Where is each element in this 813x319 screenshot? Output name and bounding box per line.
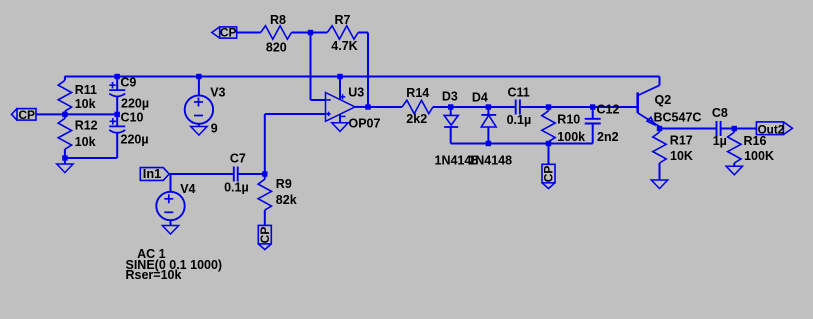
label Out2 [758,123,785,136]
label U3 [348,85,364,99]
flag port Out2 [756,122,792,135]
R17 value 10K [670,149,693,163]
svg-text:CP: CP [258,227,272,244]
label R11 [75,83,97,97]
wire [548,144,550,165]
svg-text:CP: CP [220,26,237,40]
svg-text:Rser=10k: Rser=10k [126,268,182,282]
C9 value 220µ [121,97,149,111]
label V4 [180,182,195,196]
label R10 [557,113,580,127]
resistor R7 [327,26,358,39]
ground [162,226,178,235]
label CP (R9 flag) [258,227,272,244]
svg-text:100K: 100K [744,149,774,163]
svg-text:D4: D4 [472,91,488,105]
svg-text:R11: R11 [75,83,97,97]
R16 value 100K [744,149,774,163]
ground [726,166,742,175]
node D4 top junction [486,104,491,109]
ground [332,123,348,132]
wire [358,32,368,34]
ground [191,127,207,136]
svg-text:R10: R10 [557,113,580,127]
node R8-R7 junction [308,30,313,35]
wire [264,114,266,174]
flag port CP (top) [212,27,237,38]
ground [651,180,667,189]
resistor R11 [58,77,71,115]
svg-text:220µ: 220µ [121,97,149,111]
node R10 top junction [546,104,551,109]
capacitor C12 [585,107,601,144]
svg-text:V3: V3 [210,86,225,100]
svg-text:10k: 10k [75,135,96,149]
resistor R8 [261,26,292,39]
wire [310,33,312,101]
svg-text:1N4148: 1N4148 [468,154,512,168]
wire [520,106,638,108]
D3 part 1N4148 [435,154,479,168]
label CP (top flag) [220,26,237,40]
transistor Q2 [638,77,660,129]
label CP (R10 flag) [542,166,556,183]
svg-text:BC547C: BC547C [654,111,702,125]
svg-text:R8: R8 [270,13,286,27]
svg-text:Out2: Out2 [758,123,785,136]
node C8-R16 junction [732,126,737,131]
flag port In1 [140,168,169,181]
label R17 [670,134,693,148]
wire [355,106,402,108]
label In1 [143,166,162,181]
label R14 [406,86,429,100]
resistor R16 [728,129,741,167]
svg-text:9: 9 [211,122,218,136]
svg-text:In1: In1 [143,166,162,181]
resistor R10 [542,107,555,144]
svg-text:D3: D3 [442,90,458,104]
R7 value 4.7K [331,39,357,53]
capacitor C10 [109,114,125,158]
wire [451,143,593,145]
label R7 [335,13,351,27]
svg-text:CP: CP [18,108,35,122]
svg-text:4.7K: 4.7K [331,39,357,53]
node C9 top junction [115,74,120,79]
svg-text:82k: 82k [276,193,297,207]
wire [65,157,117,159]
node U3 output junction [365,104,370,109]
wire +9V rail [65,76,660,78]
wire [169,173,234,175]
capacitor C8 [717,121,721,136]
node V3 top junction [196,74,201,79]
voltage source V4 [156,174,184,226]
label R16 [744,134,767,148]
svg-text:C8: C8 [712,106,728,120]
resistor R12 [58,114,71,158]
node R12 bottom junction [62,155,67,160]
resistor R17 [653,129,666,181]
svg-text:R17: R17 [670,134,693,148]
svg-text:820: 820 [266,41,287,55]
capacitor C9 [109,77,125,115]
U3 part OP07 [349,117,381,131]
node C7-R9 junction [262,171,267,176]
label C12 [597,102,620,116]
wire [311,99,326,101]
svg-text:R7: R7 [335,13,351,27]
C12 value 2n2 [597,130,619,144]
wire [433,106,516,108]
text Rser=10k [126,268,182,282]
label D3 [442,90,458,104]
svg-text:220µ: 220µ [121,133,149,147]
node R10 bottom junction [546,141,551,146]
C7 value 0.1µ [224,180,249,194]
node D4 bottom junction [486,141,491,146]
label Q2 [655,93,672,107]
text AC 1 [137,247,166,261]
resistor R14 [402,100,433,113]
label D4 [472,91,488,105]
svg-text:2k2: 2k2 [406,112,427,126]
label R9 [276,177,292,191]
svg-text:Q2: Q2 [655,93,672,107]
node C9-C10 junction [115,112,120,117]
R12 value 10k [75,135,96,149]
D4 part 1N4148 [468,154,512,168]
op-amp U3 [326,77,356,123]
label C9 [120,76,136,90]
label V3 [210,86,225,100]
V3 value 9 [211,122,218,136]
capacitor C7 [234,167,238,182]
node U3 V+ junction [337,74,342,79]
flag port CP (left) [12,109,37,121]
svg-text:0.1µ: 0.1µ [224,180,249,194]
flag port CP (below R9) [258,225,271,249]
wire [721,128,757,130]
C11 value 0.1µ [507,113,532,127]
node D3 top junction [448,104,453,109]
wire [292,32,328,34]
flag port CP (below R10) [542,164,555,188]
node R11-R12 junction [62,112,67,117]
text SINE(0 0.1 1000) [126,258,223,272]
label C7 [230,152,246,166]
wire [660,128,717,130]
wire [265,113,326,115]
R9 value 82k [276,193,297,207]
label R12 [75,119,98,133]
svg-text:C9: C9 [120,76,136,90]
svg-text:CP: CP [542,166,556,183]
svg-text:C12: C12 [597,102,620,116]
svg-text:OP07: OP07 [349,117,381,131]
R14 value 2k2 [406,112,427,126]
wire [36,113,117,115]
label C8 [712,106,728,120]
label CP (left flag) [18,108,35,122]
node Q2 emitter junction [657,126,662,131]
R11 value 10k [75,97,96,111]
svg-text:C11: C11 [508,86,530,100]
voltage source V3 [185,77,213,127]
svg-text:R9: R9 [276,177,292,191]
C10 value 220µ [121,133,149,147]
capacitor C11 [516,100,520,115]
svg-text:R12: R12 [75,119,98,133]
resistor R9 [258,174,271,225]
C8 value 1µ [713,134,727,148]
svg-text:100k: 100k [557,130,585,144]
label C11 [508,86,530,100]
svg-text:10k: 10k [75,97,96,111]
label C10 [121,110,144,124]
svg-text:0.1µ: 0.1µ [507,113,532,127]
svg-text:2n2: 2n2 [597,130,619,144]
node C12 top junction [590,104,595,109]
ground [57,158,73,173]
diode D4 [481,107,496,144]
Q2 part BC547C [654,111,702,125]
svg-text:10K: 10K [670,149,693,163]
label R8 [270,13,286,27]
wire [238,173,265,175]
wire [367,33,369,108]
R10 value 100k [557,130,585,144]
diode D3 [444,107,458,144]
svg-text:V4: V4 [180,182,195,196]
R8 value 820 [266,41,287,55]
svg-text:U3: U3 [348,85,364,99]
svg-text:R14: R14 [406,86,429,100]
wire [237,32,261,34]
svg-text:C7: C7 [230,152,246,166]
svg-text:1µ: 1µ [713,134,727,148]
svg-text:C10: C10 [121,110,144,124]
